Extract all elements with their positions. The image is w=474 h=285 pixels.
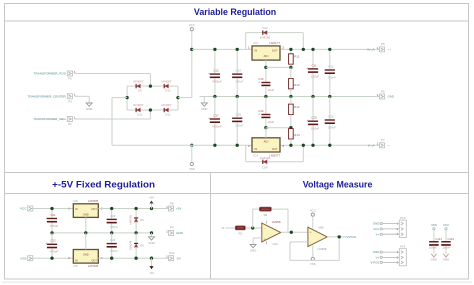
svg-text:100nF: 100nF [235, 80, 243, 84]
svg-text:GND: GND [373, 250, 379, 254]
svg-text:100nF: 100nF [429, 245, 437, 249]
svg-text:UF4007: UF4007 [133, 103, 144, 107]
svg-text:1: 1 [166, 229, 168, 233]
svg-text:+: + [306, 67, 308, 71]
svg-text:TRANSFORMER_NEG: TRANSFORMER_NEG [33, 117, 66, 121]
svg-text:GND: GND [176, 231, 184, 235]
svg-text:100nF: 100nF [328, 75, 336, 79]
svg-text:100nF: 100nF [110, 225, 118, 229]
svg-text:1N4148: 1N4148 [260, 36, 271, 40]
svg-text:U6A: U6A [272, 242, 278, 246]
svg-text:100nF: 100nF [235, 124, 243, 128]
svg-text:GND: GND [443, 258, 449, 262]
svg-text:100uF: 100uF [311, 74, 319, 78]
svg-text:U6B: U6B [318, 225, 324, 229]
svg-text:R6: R6 [264, 213, 268, 217]
svg-text:VSS: VSS [20, 256, 26, 260]
svg-text:V-: V- [222, 226, 225, 230]
svg-text:LM317T: LM317T [269, 41, 280, 45]
svg-text:470uF: 470uF [50, 224, 58, 228]
svg-text:UF4007: UF4007 [161, 79, 172, 83]
svg-text:VSS: VSS [310, 262, 316, 266]
svg-text:1N4148: 1N4148 [128, 240, 132, 250]
svg-text:VCC: VCC [20, 207, 27, 211]
svg-text:R12: R12 [294, 105, 300, 109]
svg-text:10uF: 10uF [268, 88, 275, 92]
svg-text:OUT: OUT [272, 147, 278, 151]
svg-text:R14: R14 [294, 133, 300, 137]
svg-text:GND: GND [388, 95, 394, 99]
svg-text:D13: D13 [263, 26, 268, 30]
svg-text:P10: P10 [169, 251, 175, 255]
svg-text:C114: C114 [448, 237, 455, 241]
svg-text:1: 1 [377, 46, 379, 50]
svg-text:GND: GND [250, 249, 256, 253]
svg-text:+: + [310, 231, 312, 235]
svg-text:IN: IN [75, 259, 78, 263]
svg-text:P6: P6 [381, 89, 385, 93]
svg-text:VCC: VCC [443, 223, 449, 227]
svg-text:C113: C113 [435, 237, 442, 241]
svg-text:D14: D14 [263, 165, 268, 169]
svg-text:C14: C14 [236, 69, 242, 73]
svg-text:-: - [310, 241, 311, 245]
svg-text:P7: P7 [381, 138, 385, 142]
svg-text:V-_A: V-_A [368, 143, 376, 147]
svg-text:V-POS: V-POS [370, 261, 379, 265]
svg-text:P5: P5 [381, 42, 385, 46]
svg-text:+: + [208, 117, 210, 121]
svg-text:D6: D6 [140, 243, 144, 247]
svg-text:D11: D11 [137, 113, 142, 117]
svg-text:C12: C12 [328, 64, 334, 68]
svg-text:VSS: VSS [431, 223, 437, 227]
svg-text:D10: D10 [165, 89, 170, 93]
svg-text:LM337T: LM337T [269, 153, 280, 157]
svg-text:D12: D12 [165, 113, 170, 117]
svg-text:D5: D5 [140, 218, 144, 222]
svg-text:LM7805: LM7805 [88, 199, 99, 203]
svg-text:C11: C11 [311, 63, 316, 67]
svg-text:IN: IN [255, 49, 258, 53]
svg-text:-: - [264, 227, 265, 231]
svg-text:LM358: LM358 [272, 220, 281, 224]
svg-text:+: + [45, 242, 47, 246]
svg-text:2: 2 [282, 45, 284, 49]
svg-text:ADJ: ADJ [264, 55, 269, 58]
svg-text:VCC: VCC [189, 23, 195, 27]
svg-text:R5: R5 [239, 231, 243, 235]
svg-text:+: + [264, 237, 266, 241]
svg-text:2: 2 [248, 144, 250, 148]
svg-text:VCC: VCC [373, 227, 379, 231]
svg-text:IC5: IC5 [73, 199, 78, 203]
svg-text:LM7905: LM7905 [88, 264, 99, 268]
svg-text:+5V: +5V [176, 207, 183, 211]
svg-text:P2: P2 [68, 77, 72, 81]
svg-text:GND: GND [431, 258, 437, 262]
svg-text:-5V: -5V [149, 271, 154, 275]
svg-text:IN: IN [75, 207, 78, 211]
svg-text:C23: C23 [110, 214, 116, 218]
svg-text:>-: >- [388, 143, 391, 147]
svg-text:+: + [208, 72, 210, 76]
svg-text:IC3: IC3 [254, 41, 259, 45]
svg-text:D9: D9 [138, 89, 142, 93]
svg-text:VSS: VSS [189, 167, 195, 171]
svg-text:C22: C22 [50, 239, 56, 243]
svg-text:10uF: 10uF [268, 120, 275, 124]
svg-text:+: + [258, 81, 260, 85]
svg-text:470uF: 470uF [50, 250, 58, 254]
svg-text:GND: GND [201, 107, 207, 111]
svg-text:GND: GND [83, 253, 89, 256]
svg-text:ADJ: ADJ [264, 141, 269, 144]
svg-text:TRANSFORMER_POS: TRANSFORMER_POS [34, 72, 66, 76]
svg-text:R13: R13 [294, 83, 300, 87]
svg-text:V+: V+ [376, 232, 380, 236]
svg-text:1: 1 [68, 207, 70, 211]
svg-text:+: + [45, 216, 47, 220]
svg-text:Variable Regulation: Variable Regulation [194, 7, 277, 17]
svg-text:1: 1 [377, 142, 379, 146]
svg-text:C18: C18 [236, 113, 242, 117]
svg-text:V+: V+ [376, 256, 380, 260]
svg-text:+-5V Fixed Regulation: +-5V Fixed Regulation [52, 179, 155, 189]
svg-text:+: + [306, 119, 308, 123]
svg-text:>+: >+ [388, 48, 392, 52]
svg-text:R11: R11 [294, 55, 299, 59]
svg-text:IC4: IC4 [254, 153, 259, 157]
svg-text:3: 3 [282, 144, 284, 148]
svg-text:1: 1 [166, 205, 168, 209]
svg-text:1: 1 [248, 45, 250, 49]
svg-text:1N4148: 1N4148 [260, 156, 271, 160]
svg-text:1: 1 [166, 255, 168, 259]
svg-text:C20: C20 [328, 114, 334, 118]
svg-text:VCC: VCC [310, 208, 316, 212]
svg-text:IC6: IC6 [73, 264, 78, 268]
svg-text:GND: GND [83, 213, 89, 216]
svg-text:P13: P13 [400, 216, 406, 220]
svg-text:LM358: LM358 [318, 247, 327, 251]
svg-text:100nF: 100nF [110, 249, 118, 253]
svg-text:100nF: 100nF [328, 125, 336, 129]
svg-text:1N4148: 1N4148 [128, 215, 132, 225]
svg-text:100uF: 100uF [311, 127, 319, 131]
svg-text:GND: GND [86, 107, 92, 111]
svg-text:OUT: OUT [91, 259, 97, 263]
svg-text:IN: IN [255, 147, 258, 151]
svg-text:TRANSFORMER_CENTER: TRANSFORMER_CENTER [27, 94, 66, 98]
svg-text:C21: C21 [50, 213, 56, 217]
svg-text:4700uF: 4700uF [212, 124, 222, 128]
svg-text:UF4007: UF4007 [161, 103, 172, 107]
svg-text:V-POS: V-POS [347, 235, 356, 239]
svg-text:100nF: 100nF [442, 245, 450, 249]
svg-text:V+_A: V+_A [367, 48, 376, 52]
svg-text:P1: P1 [68, 122, 72, 126]
svg-text:4700uF: 4700uF [212, 80, 222, 84]
svg-text:P8: P8 [170, 201, 174, 205]
svg-text:1: 1 [377, 93, 379, 97]
svg-text:OUT: OUT [91, 207, 97, 211]
svg-text:+: + [258, 113, 260, 117]
svg-text:OUT: OUT [272, 49, 278, 53]
svg-text:P3: P3 [68, 100, 72, 104]
svg-text:2: 2 [68, 256, 70, 260]
svg-text:+5V: +5V [149, 196, 154, 200]
svg-text:UF4007: UF4007 [133, 79, 144, 83]
svg-text:C24: C24 [110, 238, 116, 242]
svg-text:P9: P9 [170, 226, 174, 230]
svg-text:GND: GND [148, 241, 154, 245]
svg-text:GND: GND [373, 222, 379, 226]
svg-text:C19: C19 [311, 116, 317, 120]
svg-text:C17: C17 [213, 113, 219, 117]
svg-text:C13: C13 [213, 69, 219, 73]
svg-text:Voltage Measure: Voltage Measure [303, 179, 373, 189]
svg-text:P14: P14 [400, 245, 406, 249]
